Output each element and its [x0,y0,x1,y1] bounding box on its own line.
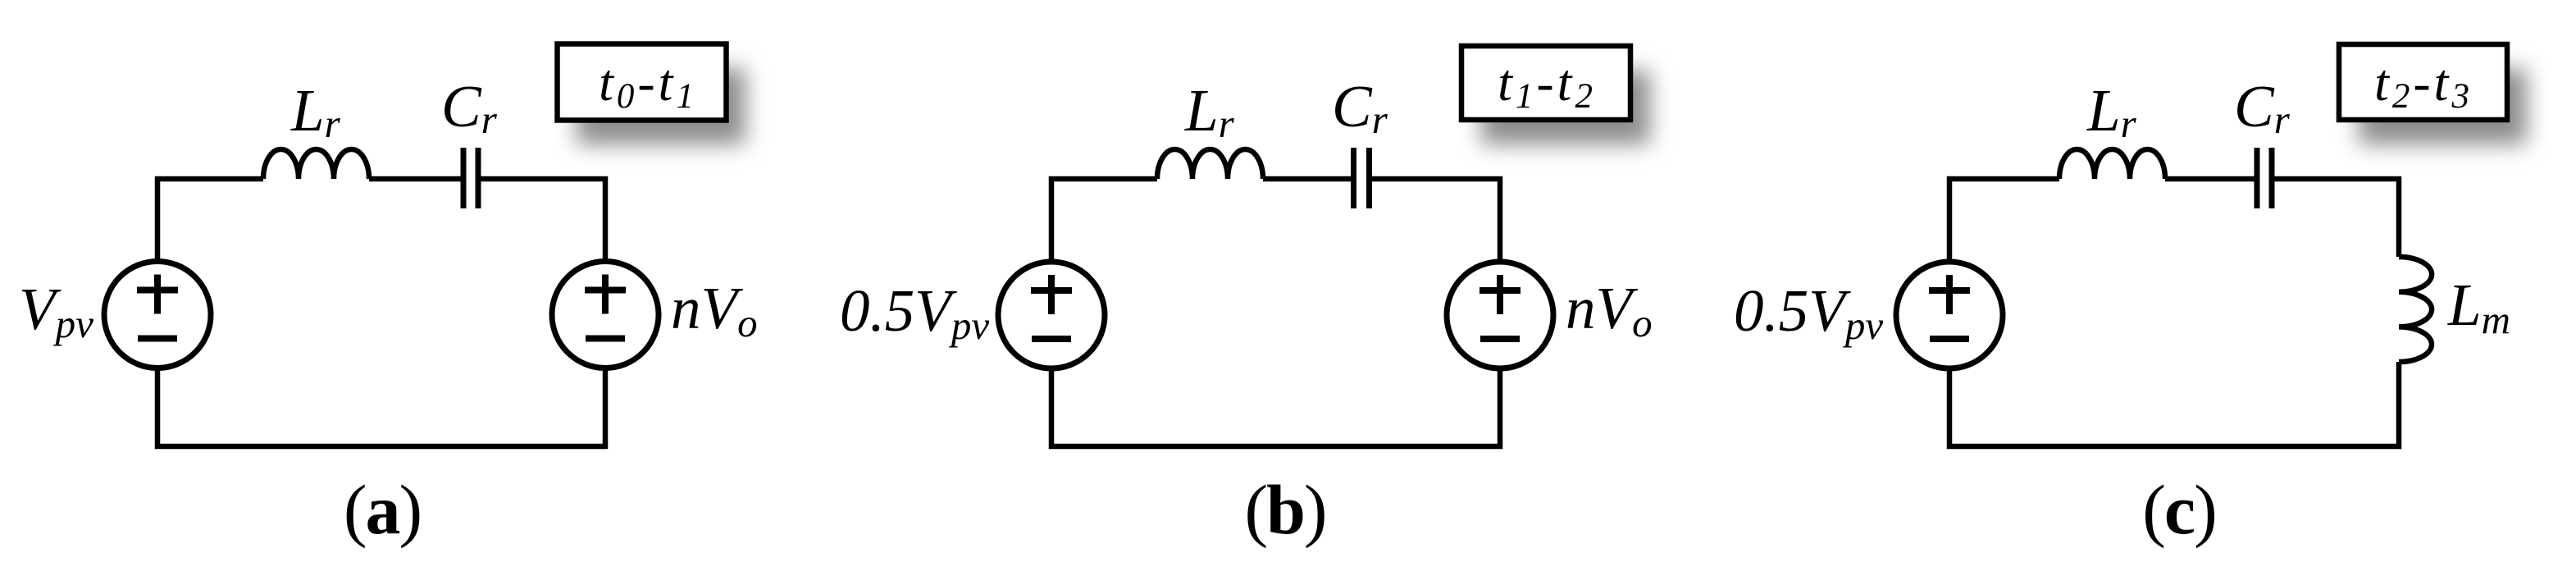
svg-text:Cr: Cr [2234,73,2291,142]
svg-text:nVo: nVo [1566,275,1653,345]
svg-text:Lr: Lr [2086,77,2137,146]
svg-text:nVo: nVo [671,275,758,345]
svg-text:Lm: Lm [2447,272,2510,342]
svg-text:0.5Vpv: 0.5Vpv [1734,277,1883,348]
svg-text:Lr: Lr [290,77,341,146]
svg-text:0.5Vpv: 0.5Vpv [840,277,989,348]
svg-text:(b): (b) [1244,470,1325,549]
svg-text:Vpv: Vpv [19,276,93,346]
svg-text:Lr: Lr [1184,77,1235,146]
svg-text:Cr: Cr [1332,73,1388,142]
svg-text:(a): (a) [344,470,421,549]
svg-text:(c): (c) [2142,470,2215,549]
svg-text:Cr: Cr [441,73,498,142]
